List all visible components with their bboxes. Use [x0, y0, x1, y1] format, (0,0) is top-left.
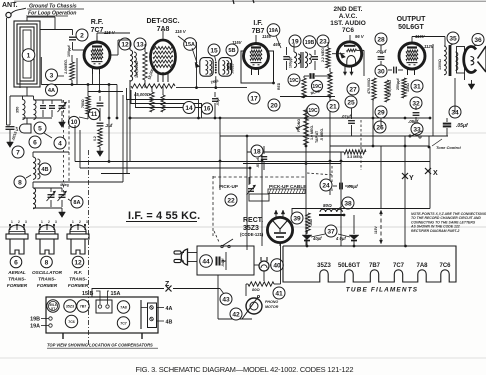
svg-text:.05μf: .05μf — [456, 123, 469, 129]
svg-text:TUBE FILAMENTS: TUBE FILAMENTS — [346, 287, 419, 294]
svg-text:1ST. AUDIO: 1ST. AUDIO — [330, 20, 366, 27]
svg-text:FORMER: FORMER — [68, 283, 89, 288]
svg-text:28: 28 — [377, 36, 385, 43]
svg-text:30: 30 — [377, 68, 385, 75]
svg-text:350: 350 — [16, 107, 20, 113]
svg-text:23: 23 — [319, 38, 327, 45]
svg-text:1: 1 — [41, 220, 43, 224]
svg-text:470,000Ω: 470,000Ω — [367, 78, 371, 94]
svg-text:15A: 15A — [185, 42, 195, 48]
svg-text:RED: RED — [277, 82, 281, 90]
svg-text:39: 39 — [293, 215, 301, 222]
svg-text:7A8: 7A8 — [416, 263, 428, 269]
svg-text:43: 43 — [222, 296, 230, 303]
svg-text:115V: 115V — [374, 226, 378, 234]
svg-text:8: 8 — [18, 179, 22, 186]
svg-text:19A: 19A — [269, 28, 279, 34]
svg-text:2ND DET.: 2ND DET. — [334, 6, 363, 13]
svg-text:7B7: 7B7 — [369, 263, 381, 269]
svg-text:A.V.C.: A.V.C. — [339, 13, 358, 20]
svg-text:2: 2 — [79, 220, 81, 224]
svg-text:DET-OSC.: DET-OSC. — [146, 18, 179, 25]
svg-text:.05 μf.: .05 μf. — [256, 157, 260, 168]
svg-text:R.F.: R.F. — [74, 270, 82, 275]
svg-text:0.2: 0.2 — [93, 136, 97, 141]
svg-text:38: 38 — [344, 200, 352, 207]
svg-text:7: 7 — [16, 149, 20, 156]
svg-text:19B: 19B — [30, 317, 40, 323]
svg-text:2: 2 — [80, 32, 84, 39]
svg-text:15A: 15A — [111, 291, 121, 297]
svg-text:35Z3: 35Z3 — [317, 263, 331, 269]
svg-text:TAP AT: TAP AT — [315, 130, 319, 143]
svg-text:115 V: 115 V — [175, 29, 187, 34]
svg-text:4B: 4B — [41, 167, 48, 173]
svg-text:20: 20 — [270, 102, 278, 109]
svg-text:OUTPUT: OUTPUT — [397, 16, 427, 23]
svg-text:10: 10 — [71, 120, 78, 126]
svg-text:4A: 4A — [166, 306, 173, 312]
svg-text:2: 2 — [48, 220, 50, 224]
svg-text:3: 3 — [50, 72, 54, 79]
svg-text:19: 19 — [291, 38, 299, 45]
svg-text:GT: GT — [51, 307, 55, 311]
svg-text:31: 31 — [413, 83, 421, 90]
svg-text:470,000Ω: 470,000Ω — [388, 80, 392, 96]
svg-text:41: 41 — [275, 290, 283, 297]
svg-text:6: 6 — [14, 259, 18, 266]
svg-text:TRANS-: TRANS- — [38, 277, 56, 282]
svg-text:.00025: .00025 — [231, 64, 235, 74]
svg-text:ANT.: ANT. — [2, 2, 18, 9]
svg-text:.03μf: .03μf — [216, 97, 220, 106]
svg-text:7C6: 7C6 — [439, 263, 451, 269]
svg-text:96 V: 96 V — [355, 34, 365, 39]
svg-text:MOTOR: MOTOR — [265, 305, 279, 309]
svg-text:5: 5 — [38, 125, 42, 132]
svg-text:4 0μf: 4 0μf — [335, 236, 346, 241]
svg-text:TOP VIEW SHOWING LOCATION O: TOP VIEW SHOWING LOCATION OF COMPENSATOR… — [47, 343, 153, 348]
svg-text:130Ω: 130Ω — [406, 83, 410, 92]
svg-text:1: 1 — [72, 220, 74, 224]
svg-text:25: 25 — [347, 99, 355, 106]
svg-text:21: 21 — [329, 103, 337, 110]
svg-text:FORMER: FORMER — [37, 283, 58, 288]
svg-text:2.2 MEG: 2.2 MEG — [321, 48, 325, 62]
svg-text:3: 3 — [86, 220, 88, 224]
svg-text:22: 22 — [227, 197, 235, 204]
svg-text:(CODE-121): (CODE-121) — [240, 232, 264, 237]
svg-text:250μμf: 250μμf — [396, 78, 400, 90]
svg-text:8: 8 — [45, 259, 49, 266]
svg-text:.04μf: .04μf — [221, 258, 225, 267]
svg-text:7C7: 7C7 — [120, 322, 127, 326]
svg-text:5B: 5B — [228, 48, 235, 54]
svg-text:PICK-UP: PICK-UP — [219, 184, 238, 189]
svg-text:FIG. 3. SCHEMATIC DIAGRAM—MODE: FIG. 3. SCHEMATIC DIAGRAM—MODEL 42-1002.… — [136, 365, 354, 374]
svg-text:40μf: 40μf — [312, 236, 322, 241]
svg-text:14: 14 — [185, 105, 193, 112]
svg-text:7C6: 7C6 — [68, 320, 75, 324]
svg-text:35Z3: 35Z3 — [243, 225, 259, 232]
svg-text:35: 35 — [449, 35, 457, 42]
svg-text:42: 42 — [232, 311, 240, 318]
svg-text:11: 11 — [91, 112, 98, 118]
svg-text:15: 15 — [210, 47, 218, 54]
svg-text:35Z3: 35Z3 — [66, 305, 74, 309]
svg-text:8A: 8A — [73, 200, 80, 206]
svg-text:RECT.: RECT. — [243, 217, 263, 224]
svg-text:.01μf.: .01μf. — [341, 114, 352, 119]
svg-text:12: 12 — [74, 259, 82, 266]
svg-text:1: 1 — [27, 52, 31, 59]
svg-text:115 V: 115 V — [104, 30, 116, 35]
svg-text:29: 29 — [377, 109, 385, 116]
svg-text:PHONO: PHONO — [265, 300, 278, 304]
svg-text:I.F.: I.F. — [253, 20, 262, 27]
svg-text:Tone Control: Tone Control — [436, 145, 462, 150]
svg-text:1.0MEG.: 1.0MEG. — [64, 59, 68, 74]
svg-text:3: 3 — [55, 220, 57, 224]
svg-text:40: 40 — [273, 262, 281, 269]
svg-text:4Meg: 4Meg — [60, 183, 69, 187]
svg-text:I.F. = 4 55 KC.: I.F. = 4 55 KC. — [128, 210, 200, 222]
svg-text:13: 13 — [136, 41, 144, 48]
svg-text:16: 16 — [204, 107, 211, 113]
svg-text:18: 18 — [253, 148, 261, 155]
svg-text:19C: 19C — [308, 108, 318, 114]
svg-text:27: 27 — [349, 86, 357, 93]
svg-text:24: 24 — [322, 182, 330, 189]
svg-text:TRANS-: TRANS- — [69, 277, 87, 282]
svg-text:17: 17 — [250, 95, 258, 102]
svg-text:100,000Ω: 100,000Ω — [135, 61, 139, 78]
svg-text:4B: 4B — [166, 320, 173, 326]
svg-text:7C7: 7C7 — [393, 263, 405, 269]
svg-text:.5 MEG.: .5 MEG. — [320, 128, 324, 141]
svg-text:15Ω: 15Ω — [309, 219, 313, 226]
svg-text:1300Ω: 1300Ω — [438, 59, 442, 70]
svg-text:Y: Y — [409, 175, 414, 182]
svg-text:80Ω: 80Ω — [323, 203, 332, 208]
svg-text:12: 12 — [121, 41, 129, 48]
svg-text:37: 37 — [327, 228, 335, 235]
svg-text:FORMER: FORMER — [7, 283, 28, 288]
svg-text:4: 4 — [58, 140, 62, 147]
svg-text:AERIAL: AERIAL — [7, 270, 26, 275]
svg-text:6: 6 — [33, 139, 37, 146]
svg-text:26: 26 — [376, 124, 384, 131]
svg-text:780Ω: 780Ω — [81, 99, 85, 108]
svg-text:OSCILLATOR: OSCILLATOR — [32, 270, 63, 275]
svg-text:36: 36 — [474, 37, 482, 44]
svg-text:.05μf: .05μf — [347, 184, 358, 189]
svg-text:100μμf: 100μμf — [67, 45, 71, 57]
svg-text:7C6: 7C6 — [342, 27, 354, 34]
svg-text:1.0 MEG.: 1.0 MEG. — [310, 125, 314, 140]
svg-text:50L6GT: 50L6GT — [398, 24, 424, 31]
svg-text:19B: 19B — [305, 40, 315, 46]
svg-text:TRANS-: TRANS- — [8, 277, 26, 282]
svg-text:R.F.: R.F. — [91, 19, 104, 26]
svg-text:19A: 19A — [30, 324, 40, 330]
svg-text:PHONO: PHONO — [297, 119, 301, 132]
svg-text:X: X — [433, 170, 438, 177]
svg-text:19C: 19C — [289, 78, 299, 84]
svg-text:44: 44 — [202, 258, 210, 265]
svg-text:7B7: 7B7 — [80, 305, 87, 309]
svg-text:2: 2 — [18, 220, 20, 224]
svg-text:3: 3 — [25, 220, 27, 224]
svg-text:50L6GT: 50L6GT — [338, 263, 360, 269]
svg-text:RECTIFIER DIAGRAM PAR: RECTIFIER DIAGRAM PART-2 — [411, 229, 459, 233]
svg-text:1: 1 — [11, 220, 13, 224]
svg-text:100μμf: 100μμf — [289, 56, 293, 68]
svg-text:4A: 4A — [48, 88, 55, 94]
svg-text:80Ω: 80Ω — [252, 287, 260, 292]
svg-text:7A8: 7A8 — [120, 306, 127, 310]
